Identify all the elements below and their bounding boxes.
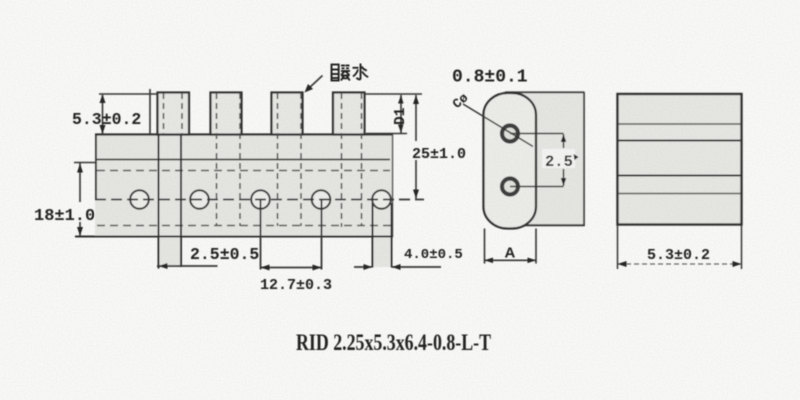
hole 4 xyxy=(312,190,331,209)
glue leader arrow xyxy=(305,76,323,93)
dimension 2.5±0.5 bottom xyxy=(157,245,259,269)
hole ring top xyxy=(502,126,518,142)
char 2 (water) xyxy=(360,64,362,80)
leg 5 edges xyxy=(373,203,392,268)
dimension 2.5 hole pitch xyxy=(510,134,579,187)
hole 3 xyxy=(251,190,270,209)
pin 2 xyxy=(211,93,242,227)
leg 1 fill xyxy=(159,135,181,267)
pin 3 xyxy=(272,93,303,227)
hole 1 xyxy=(130,190,149,209)
dimension 4.0±0.5 bottom right xyxy=(354,247,463,270)
extension lines from holes 3 and 4 xyxy=(260,200,262,270)
hole 2 xyxy=(190,190,209,209)
leg 5 fill xyxy=(373,202,392,267)
Cø leader xyxy=(450,90,533,146)
hole centre line xyxy=(95,199,424,201)
body inner line dashed lower xyxy=(97,225,391,227)
connector body fill xyxy=(95,135,393,237)
pin 1 xyxy=(158,93,190,135)
hole 5 xyxy=(372,190,391,209)
dimension 5.3±0.2 top-left xyxy=(72,94,158,134)
pin 4 xyxy=(333,93,365,228)
dimension 12.7±0.3 bottom xyxy=(260,265,332,295)
dimension 25±1.0 right xyxy=(365,94,467,199)
stacked block xyxy=(618,94,742,225)
dimension D1 (pin height, right of pin4) xyxy=(366,95,409,134)
leg 1 edges xyxy=(159,135,182,269)
dimension 18±1.0 left xyxy=(34,163,95,237)
scan noise overlay xyxy=(0,0,1,1)
body inner line solid xyxy=(95,159,390,161)
body inner line dashed upper xyxy=(97,170,390,172)
dimension A xyxy=(485,229,537,264)
dimension 5.3±0.2 bottom right view xyxy=(618,225,742,270)
hole ring bottom xyxy=(502,179,518,195)
capsule outline xyxy=(484,93,537,229)
stray extension tick left of pin 1 xyxy=(149,89,151,135)
char 1 (glue) xyxy=(332,65,339,81)
connector body edges xyxy=(75,135,393,237)
glue label 膠水 (drawn strokes) xyxy=(332,64,369,81)
shaded plate behind capsule xyxy=(500,92,585,226)
